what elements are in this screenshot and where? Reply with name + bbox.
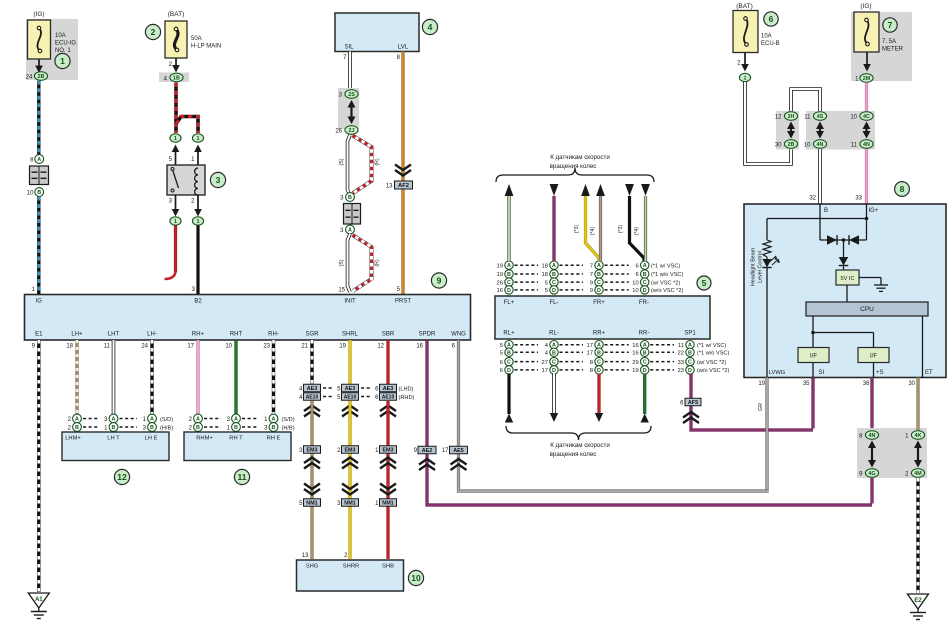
svg-text:2: 2 [151,27,156,37]
svg-text:10: 10 [850,115,857,121]
svg-text:C: C [688,360,692,366]
sensor wire FR+ yellow *3 [586,196,600,261]
svg-text:A1: A1 [35,597,43,603]
svg-text:12: 12 [775,115,782,121]
svg-text:5: 5 [545,288,548,294]
callout 6 [764,12,778,26]
svg-text:I/F: I/F [810,354,817,360]
svg-text:3: 3 [216,175,221,185]
svg-text:17: 17 [187,344,194,350]
mating arrow 4S-4N [819,128,821,133]
svg-text:1: 1 [60,56,65,66]
svg-text:NM1: NM1 [382,501,393,507]
svg-text:(IG): (IG) [33,11,44,18]
svg-text:(*1 w/o VSC): (*1 w/o VSC) [697,351,729,357]
svg-text:10: 10 [27,191,34,197]
svg-text:LH T: LH T [107,436,120,442]
callout 12 [114,469,129,484]
svg-text:36: 36 [863,381,870,387]
svg-text:8: 8 [590,368,593,374]
svg-text:AE5: AE5 [453,448,464,454]
svg-text:2B: 2B [38,74,45,80]
svg-text:19: 19 [339,344,346,350]
svg-text:27: 27 [542,360,548,366]
svg-text:(w/ VSC *2): (w/ VSC *2) [651,280,680,286]
svg-text:RH-: RH- [268,332,279,338]
svg-text:(*3): (*3) [618,225,624,234]
wire white 2H to 4S [791,89,820,111]
svg-text:B: B [112,425,116,431]
connector block on SIL wire [344,204,361,225]
svg-text:4S: 4S [817,114,824,120]
svg-text:LHM+: LHM+ [65,436,81,442]
svg-text:4N: 4N [817,142,824,148]
svg-text:D: D [597,368,601,374]
svg-text:7: 7 [590,263,593,269]
interface I/F right [858,348,889,363]
wire red-white branch R lower [353,235,372,291]
svg-text:(R): (R) [375,158,381,165]
svg-text:1: 1 [197,136,200,142]
wire SHRL yellow upper [348,340,351,384]
svg-text:CPU: CPU [860,306,874,313]
svg-text:E2: E2 [914,598,922,604]
svg-text:2J: 2J [349,128,355,134]
svg-text:LH+: LH+ [71,332,83,338]
wire orange LVL to PRST [401,52,404,295]
svg-text:D: D [597,288,601,294]
svg-text:10A: 10A [55,33,66,39]
wire white fuse F6 to 2B [745,82,791,164]
svg-text:12: 12 [117,472,127,482]
svg-text:(BAT): (BAT) [168,11,185,18]
svg-text:16: 16 [416,344,423,350]
svg-text:AF2: AF2 [398,183,409,189]
svg-text:6: 6 [500,368,503,374]
LED in box 8 [766,257,768,259]
svg-text:A: A [112,417,116,423]
svg-text:10: 10 [632,280,638,286]
svg-text:К датчикам скорости: К датчикам скорости [550,154,610,161]
svg-text:4: 4 [428,22,433,32]
svg-text:FR+: FR+ [593,300,605,306]
svg-text:4N: 4N [863,142,870,148]
svg-text:4M: 4M [914,471,922,477]
svg-text:SHG: SHG [306,564,319,570]
callout 8 [895,182,910,197]
wire red-black from 1B to relay branches [174,83,178,134]
svg-text:A: A [234,417,238,423]
svg-text:SI: SI [819,370,825,376]
connector 1 right below relay [192,217,203,225]
svg-text:33: 33 [855,196,862,202]
sensor wire FL+ light green [507,196,510,261]
wire LH- black-white [150,340,153,415]
svg-text:IG+: IG+ [869,208,879,214]
wire white branch S [348,135,351,195]
diode left [827,235,837,245]
svg-text:8: 8 [590,360,593,366]
wire red stub from relay pin 3 [174,226,177,273]
svg-text:5: 5 [500,351,503,357]
svg-text:NM1: NM1 [344,501,355,507]
svg-text:24: 24 [141,344,148,350]
callout 10 [408,570,423,585]
svg-text:AE10: AE10 [306,395,319,401]
wire red-white branch R [353,136,372,194]
svg-text:6: 6 [635,263,638,269]
connector 1 left above relay [170,134,181,142]
svg-text:LH E: LH E [145,436,158,442]
svg-text:B: B [824,208,828,214]
connector background 4N 4G 4K 4M [857,428,927,478]
svg-text:2M: 2M [863,76,871,82]
svg-text:(w/o VSC *2): (w/o VSC *2) [697,368,729,374]
callout 7 [883,18,897,32]
svg-text:К датчикам скорости: К датчикам скорости [550,442,610,449]
svg-text:2H: 2H [788,114,795,120]
svg-text:RL-: RL- [549,331,559,337]
svg-text:A: A [643,263,647,269]
sensor wire RL- white bottom [552,374,556,414]
connector 1 right above relay [192,134,203,142]
svg-text:9: 9 [590,288,593,294]
svg-text:ECU-IG: ECU-IG [55,41,76,47]
svg-text:35: 35 [803,381,810,387]
svg-text:(H/B): (H/B) [160,426,173,432]
svg-text:C: C [552,360,556,366]
wire fuse F1 to connector 2B [38,60,40,67]
callout 2 [145,24,160,39]
svg-text:(*3): (*3) [574,225,580,234]
svg-text:SGR: SGR [305,332,319,338]
svg-text:RH E: RH E [267,436,281,442]
svg-text:10: 10 [225,344,232,350]
svg-text:4N: 4N [869,433,876,439]
svg-text:10: 10 [411,573,421,583]
svg-text:13: 13 [386,184,393,190]
wire SHRR yellow [348,401,351,559]
svg-text:SP1: SP1 [684,331,696,337]
callout 4 [422,19,437,34]
svg-text:RH+: RH+ [192,332,205,338]
svg-text:19: 19 [497,263,503,269]
svg-text:D: D [643,368,647,374]
svg-text:ET: ET [925,370,933,376]
svg-text:(*1 w/o VSC): (*1 w/o VSC) [651,272,683,278]
svg-text:B: B [348,195,352,201]
svg-text:5: 5 [545,280,548,286]
brace to wheel speed sensors top [496,168,654,182]
sensor wire RR+ red bottom [597,374,600,414]
svg-text:RL+: RL+ [503,331,515,337]
svg-text:EM3: EM3 [344,448,355,454]
wires CPU to interfaces [812,316,814,348]
svg-text:AE3: AE3 [383,386,394,392]
svg-text:23: 23 [263,344,270,350]
ECU U9 skid control box [25,295,471,341]
svg-text:B: B [643,272,647,278]
svg-text:7: 7 [590,272,593,278]
actuator box 10 [297,560,404,591]
svg-text:5V IC: 5V IC [841,276,855,282]
svg-text:A: A [272,417,276,423]
connector 1B background [159,73,189,83]
wire I/F right to +S [873,363,875,378]
svg-text:2B: 2B [788,142,795,148]
svg-text:A: A [507,263,511,269]
svg-text:6: 6 [635,272,638,278]
svg-text:AE10: AE10 [382,395,395,401]
connector block on IG wire [30,166,49,185]
svg-text:(S): (S) [339,259,345,266]
svg-text:B: B [272,425,276,431]
svg-text:9: 9 [590,280,593,286]
svg-text:5: 5 [500,343,503,349]
svg-text:D: D [507,368,511,374]
svg-text:17: 17 [442,448,449,454]
wire RH+ pink [196,340,199,415]
svg-text:16: 16 [497,288,503,294]
wire pink 2M to 4C [865,83,868,112]
svg-text:32: 32 [809,196,816,202]
svg-text:SBR: SBR [382,332,395,338]
chevrons below EM3 [304,458,320,464]
svg-text:D: D [507,288,511,294]
sensor wire RR- green bottom [643,374,646,415]
svg-text:17: 17 [587,351,593,357]
diode right [849,235,859,245]
svg-text:B: B [150,425,154,431]
svg-text:E1: E1 [35,332,43,338]
svg-text:30: 30 [908,381,915,387]
svg-text:D: D [552,368,556,374]
svg-text:4K: 4K [915,433,922,439]
svg-text:(w/ VSC *2): (w/ VSC *2) [697,360,726,366]
svg-text:24: 24 [26,75,33,81]
svg-text:12: 12 [377,344,384,350]
wire WNG gray [459,340,769,491]
svg-text:AE2: AE2 [422,448,433,454]
svg-text:B: B [552,272,556,278]
svg-text:A: A [37,157,41,163]
headlight leveling ECU box 8 [744,204,946,378]
wire gray LVWG down-left [765,378,768,490]
connector background 4S 4N 4C 4N [806,111,875,150]
svg-text:D: D [552,288,556,294]
svg-text:13: 13 [302,553,309,559]
headlamp LH box 12 [62,432,169,461]
sensor wire FR- light green *4 [644,196,647,261]
svg-text:18: 18 [66,344,73,350]
svg-text:(BAT): (BAT) [736,3,753,10]
svg-text:SIL: SIL [344,45,354,51]
wire IG blue-black from 2B to connector A [37,81,40,155]
svg-text:(IG): (IG) [860,3,871,10]
wire purple 4G down [870,478,873,504]
svg-text:I/F: I/F [870,354,877,360]
svg-text:22: 22 [678,351,684,357]
svg-text:C: C [507,360,511,366]
svg-text:SHRL: SHRL [342,332,359,338]
svg-text:C: C [597,360,601,366]
wire white branch S lower [348,234,351,292]
svg-text:A: A [348,228,352,234]
svg-text:METER: METER [882,47,904,53]
svg-text:ECU-B: ECU-B [761,41,780,47]
svg-text:B2: B2 [194,299,202,305]
mating arrow 4K-4M [917,447,919,462]
wire RH- black-white [272,340,275,415]
ABS unit box 5 [495,296,710,339]
svg-text:(w/o VSC *2): (w/o VSC *2) [651,288,683,294]
svg-text:11: 11 [851,143,858,149]
svg-text:SHRR: SHRR [343,564,359,570]
wire LED to LVWG [766,268,768,378]
svg-text:PRST: PRST [395,299,411,305]
svg-text:1B: 1B [173,76,180,82]
svg-text:RH T: RH T [229,436,243,442]
connector 1 below fuse F6 [739,73,750,81]
svg-text:WNG: WNG [451,332,466,338]
wire SHB red [386,401,389,559]
wire purple SI down-left [811,378,814,429]
svg-text:23: 23 [678,368,684,374]
mating arrow 2S-2J [350,106,352,118]
svg-text:26: 26 [335,129,342,135]
callout 11 [234,469,249,484]
wire RHT green [234,340,237,415]
svg-text:6: 6 [769,14,774,24]
svg-text:30: 30 [775,143,782,149]
svg-text:19: 19 [632,368,638,374]
svg-text:(S/D): (S/D) [160,417,173,423]
wire I/F left to SI [812,363,814,378]
svg-text:B: B [37,190,41,196]
brace to wheel speed sensors bottom [506,426,651,440]
svg-text:1: 1 [174,136,177,142]
wire LHT white [112,340,116,415]
headlamp RH box 11 [184,432,291,461]
sensor wire RL+ black bottom [507,374,510,415]
wire IG blue-black from B to ECU pin 1 [37,197,40,295]
chevrons below AE10 [304,406,320,412]
svg-text:4C: 4C [863,114,870,120]
svg-text:FL+: FL+ [504,300,515,306]
connector 2S 2J background [338,88,359,129]
resistor in box 8 [766,219,768,241]
svg-text:SHB: SHB [382,564,394,570]
svg-text:A: A [150,417,154,423]
chevrons above NM1 [304,484,320,490]
svg-text:4G: 4G [868,471,875,477]
wire pink 4N to pin 33 [865,149,868,204]
svg-text:9: 9 [437,276,442,286]
connector background 2H 2B [776,111,799,150]
regulator 5V IC [836,270,859,285]
fuse F1 background [26,19,78,80]
svg-text:RR+: RR+ [593,331,606,337]
wire E1 black-white to ground [37,340,40,592]
svg-text:B: B [234,425,238,431]
sensor wire FR- black *3 [630,196,645,261]
wire black from relay pin 2 to ECU pin 3 B2 [196,226,199,295]
svg-text:Headlight Beam: Headlight Beam [751,247,757,286]
svg-text:FL-: FL- [550,300,559,306]
svg-text:16: 16 [632,351,638,357]
fuse F7 background [851,12,912,81]
wire LH+ tan-white [75,340,78,415]
svg-text:B: B [643,350,647,356]
wire CPU to ET [922,316,924,378]
svg-text:18: 18 [542,263,548,269]
svg-text:8: 8 [900,184,905,194]
svg-text:17: 17 [542,368,548,374]
svg-text:(*4): (*4) [590,227,596,236]
svg-text:16: 16 [632,343,638,349]
wire SPDR purple [427,340,872,505]
svg-text:IG: IG [36,299,43,305]
svg-text:10: 10 [804,143,811,149]
svg-text:(S): (S) [339,158,345,165]
wire black-white 4M to ground [916,478,919,593]
svg-text:18: 18 [542,272,548,278]
svg-text:LVL: LVL [398,45,409,51]
svg-text:A: A [597,263,601,269]
svg-text:2S: 2S [348,92,355,98]
svg-text:EM3: EM3 [306,448,317,454]
svg-text:GR: GR [758,403,764,411]
svg-text:AE3: AE3 [307,386,318,392]
svg-text:1: 1 [197,219,200,225]
wire SBR red upper [386,340,389,384]
svg-text:INIT: INIT [344,299,356,305]
mating arrow 4N-4G [871,447,873,462]
svg-text:17: 17 [587,343,593,349]
relay K1 H-LP [167,165,205,195]
connector 1 left below relay [170,217,181,225]
svg-text:15: 15 [338,288,345,294]
svg-text:RHT: RHT [230,332,243,338]
svg-text:26: 26 [497,280,503,286]
svg-text:(*1 w/ VSC): (*1 w/ VSC) [651,263,680,269]
callout 1 [55,53,70,68]
svg-text:SPDR: SPDR [419,332,436,338]
svg-text:5: 5 [702,278,707,288]
callout 9 [431,273,446,288]
sensor wire FR+ gray *4 [599,196,602,261]
wire SGR black-white upper [310,340,313,384]
svg-text:LH-: LH- [147,332,157,338]
svg-text:B: B [507,350,511,356]
svg-text:B: B [75,425,79,431]
wire 5V IC to CPU [846,285,848,302]
sensor wire FL- purple [552,196,555,261]
wire white 4N to pin 32 [818,149,822,204]
svg-text:B: B [196,425,200,431]
ground of 5V IC [859,277,881,279]
diode centre down [843,240,845,257]
svg-text:NM1: NM1 [306,501,317,507]
svg-text:21: 21 [301,344,308,350]
svg-text:7. 5A: 7. 5A [882,39,896,45]
svg-text:C: C [643,360,647,366]
svg-text:7: 7 [888,20,893,30]
svg-text:1: 1 [174,219,177,225]
wire fuse F2 to connector 1B [175,59,177,67]
svg-text:вращения колес: вращения колес [550,451,597,458]
svg-text:EM3: EM3 [382,448,393,454]
